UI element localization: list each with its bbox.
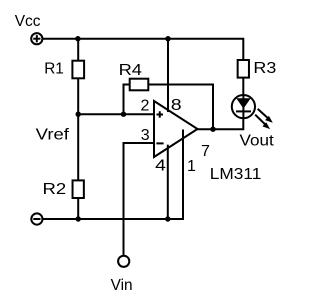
wire: R1 bottom lead to Vref node: [77, 79, 79, 114]
node Vref (R1/R2 junction): [76, 112, 81, 117]
resistor R3: [238, 60, 249, 78]
node: top rail / R1 junction: [75, 36, 80, 41]
svg-text:4: 4: [155, 158, 166, 175]
svg-text:Vin: Vin: [111, 277, 133, 294]
op-amp - input marking: [156, 142, 163, 144]
wire: R2 top lead: [77, 114, 79, 180]
svg-text:R4: R4: [119, 62, 143, 79]
node: ground / pin 4 junction: [165, 216, 170, 221]
wire: ground rail to pin 1: [43, 130, 184, 220]
svg-text:8: 8: [171, 97, 182, 114]
Vin terminal: [118, 256, 129, 267]
svg-text:R3: R3: [253, 60, 276, 77]
svg-text:LM311: LM311: [210, 166, 262, 183]
node: R4 tap on + input wire: [121, 112, 126, 117]
Vcc terminal (+): [31, 33, 42, 44]
wire: R4 right lead feedback to output node: [149, 85, 213, 130]
node: top rail / pin 8 junction: [165, 36, 170, 41]
wire: pin 4 to ground rail: [167, 145, 169, 219]
op-amp + input marking: [157, 111, 164, 117]
resistor R2: [73, 180, 84, 198]
wire: Vcc top rail to R3 column: [42, 39, 243, 60]
resistor R1: [72, 61, 84, 79]
node: output / feedback junction: [210, 127, 215, 132]
ground terminal (-): [31, 213, 42, 224]
svg-text:3: 3: [141, 127, 150, 144]
node: ground / R2 junction: [76, 216, 81, 221]
svg-text:Vref: Vref: [36, 126, 70, 143]
LED emission arrow 1: [258, 109, 273, 123]
svg-text:R2: R2: [43, 181, 67, 198]
wire: op-amp output (pin 7) to LED cathode: [198, 119, 244, 129]
resistor R4: [130, 79, 149, 91]
svg-text:1: 1: [187, 158, 196, 175]
wire: R3 to LED anode: [242, 79, 244, 95]
svg-text:R1: R1: [44, 61, 64, 78]
LED D1: [232, 95, 255, 118]
op-amp U1 LM311 triangle: [154, 101, 198, 157]
svg-text:2: 2: [141, 97, 150, 114]
LED emission arrow 2: [255, 115, 270, 129]
wire: Vref node to op-amp + input (pin 2): [78, 113, 154, 115]
wire: Vin to op-amp - input (pin 3): [124, 143, 155, 256]
wire: R1 top lead: [77, 39, 79, 60]
wire: R4 left lead: [124, 85, 130, 115]
svg-text:Vcc: Vcc: [15, 13, 41, 30]
wire: pin 8 from top rail: [167, 39, 169, 112]
svg-text:7: 7: [201, 143, 210, 160]
wire: R2 bottom lead: [77, 199, 79, 219]
svg-text:Vout: Vout: [240, 133, 275, 150]
